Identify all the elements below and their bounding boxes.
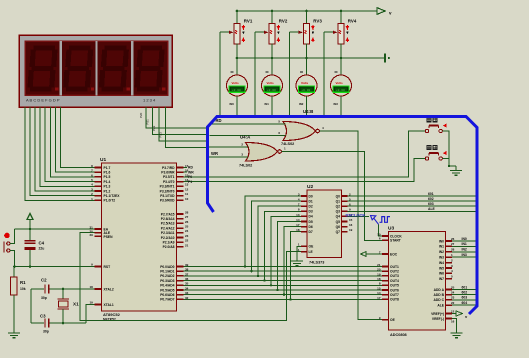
svg-text:D6: D6 [309,225,313,229]
U3 pin IN1 [446,245,453,247]
svg-text:602: 602 [428,197,434,201]
svg-text:13: 13 [296,213,300,217]
wire display digit 1 to bus [146,107,206,128]
U3 pin IN5 [446,267,453,269]
wire data tap D5 to U2 [278,222,302,291]
svg-text:20: 20 [377,268,381,272]
svg-text:18: 18 [89,285,93,289]
svg-text:OUT6: OUT6 [390,288,399,292]
U1 pin P0.3/AD3 [177,280,184,282]
svg-text:RV3: RV3 [313,19,322,24]
U3 pin VREF(+) [446,313,453,315]
svg-text:15: 15 [349,218,353,222]
wire P0.2 to ADC OUT [184,275,383,277]
wire clock to U3 CLOCK [379,224,382,236]
svg-text:VREF(-): VREF(-) [432,317,444,321]
wire voltmeter M4 to bus [340,96,342,115]
wire U4:A output to U3 START [282,152,383,241]
svg-text:12: 12 [185,187,189,191]
svg-text:Volts: Volts [232,81,239,85]
wire display segment pin DP to U1 P1 [60,107,94,168]
svg-text:+0.00: +0.00 [336,89,345,92]
push button DANBU [425,157,428,160]
wire P0.6 to ADC OUT [184,294,383,296]
U1 pin P3.1/TXD [177,195,184,197]
svg-text:17: 17 [296,223,300,227]
svg-text:VREF(+): VREF(+) [431,312,444,316]
wire display segment pin F to U1 P1 [50,107,94,177]
U3 pin OUT4 [382,280,389,282]
U3 pin IN7 [446,278,453,280]
U2 pin Q0 [342,195,348,197]
voltmeter M3 [306,58,308,75]
resistor R1 [13,267,15,278]
RV4 adjust markers [346,25,348,30]
svg-text:OUT1: OUT1 [390,265,399,269]
svg-text:603: 603 [462,296,468,300]
svg-text:A B C D E F G D P: A B C D E F G D P [26,97,60,102]
svg-text:19: 19 [349,228,353,232]
wire button2 right to ground [443,159,449,167]
junction RV1 rails [236,10,239,13]
svg-text:74LS02: 74LS02 [239,164,252,168]
wire display segment pin A to U1 P1 [25,107,95,200]
push button TIAOSHI [425,129,428,132]
U1 pin P0.1/AD1 [177,270,184,272]
svg-text:Q4: Q4 [336,215,341,219]
U3 pin OUT7 [382,294,389,296]
U2 pin Q6 [342,226,348,228]
wire R1 to ground [13,295,15,333]
svg-text:C3: C3 [40,314,46,319]
U2 pin D4 [301,215,307,217]
U2 pin Q7 [342,231,348,233]
wire ALE net 604 [452,304,477,306]
svg-text:16: 16 [349,223,353,227]
display digit 4 decimal point [162,87,165,90]
svg-text:D0: D0 [309,194,313,198]
svg-text:IN2: IN2 [439,250,444,254]
svg-text:D2: D2 [309,205,313,209]
voltmeter M1 [236,58,238,75]
svg-text:P0.0/AD0: P0.0/AD0 [160,265,174,269]
wire voltmeter M3 to bus [306,96,308,115]
U2 pin Q2 [342,205,348,207]
U2 pin Q4 [342,215,348,217]
svg-text:IN1: IN1 [439,245,444,249]
U2 pin D6 [301,226,307,228]
display digit 3 (ghost 8) [105,45,127,50]
button DANBU name [427,145,432,150]
power terminal +V (right arrow) [377,8,385,15]
RV2 adjust markers [277,25,279,30]
ground for buttons [455,166,457,171]
svg-text:OUT8: OUT8 [390,298,399,302]
U1 pin XTAL2 [95,288,102,290]
wire data tap D4 to U2 [271,216,301,285]
U2 pin D2 [301,205,307,207]
svg-text:Q2: Q2 [336,205,341,209]
display digit 1 decimal point [55,87,58,90]
wire ADD B net 602 [452,294,477,296]
svg-text:WR: WR [188,170,194,174]
potentiometer RV4 [340,11,342,24]
U3 pin OE [382,319,389,321]
wire VREF- to ground [452,319,457,333]
svg-text:10k: 10k [20,287,26,291]
U1 pin XTAL1 [95,304,102,306]
push button reset [5,233,10,238]
svg-text:23: 23 [185,234,189,238]
svg-text:11: 11 [185,192,189,196]
wire U2 Q3 net ALE [348,210,477,212]
display digit 2 (ghost 8) [69,45,91,50]
wire ADD A net 601 [452,289,477,291]
U1 pin P1.5 [95,176,102,178]
wire P0.7 to ADC OUT [184,298,383,300]
wire C2-C3 left join [30,289,32,323]
svg-text:601: 601 [428,192,434,196]
U1 pin P2.7/A15 [177,213,184,215]
wire mid rail to terminal [237,57,385,59]
U1 pin P2.6/A14 [177,218,184,220]
svg-text:IN0: IN0 [462,237,467,241]
svg-text:C2: C2 [41,278,47,283]
svg-text:XTAL1: XTAL1 [104,303,114,307]
svg-text:IN2: IN2 [462,248,467,252]
svg-text:P1.3: P1.3 [104,185,111,189]
svg-text:P0.5/AD5: P0.5/AD5 [160,288,174,292]
svg-text:P2.0/A8: P2.0/A8 [163,245,175,249]
svg-text:P1.1/T2EX: P1.1/T2EX [104,194,121,198]
svg-text:D1: D1 [309,199,313,203]
svg-text:OUT7: OUT7 [390,293,399,297]
svg-text:18: 18 [377,277,381,281]
svg-text:P3.7/RD: P3.7/RD [162,166,175,170]
svg-text:Q7: Q7 [336,230,341,234]
wire P0.3 to ADC OUT [184,280,383,282]
voltmeter M4 [340,58,342,75]
wire IN2 to bus [452,251,477,253]
wire voltmeter M2 to bus [271,96,273,115]
svg-text:23: 23 [451,296,455,300]
wire display segment pin C to U1 P1 [35,107,94,191]
U3 pin IN0 [446,240,453,242]
svg-text:+0.00: +0.00 [301,89,310,92]
wire to U4:B input 6 [210,135,286,137]
svg-text:22: 22 [185,239,189,243]
U1 pin P0.5/AD5 [177,289,184,291]
wire U2 Q0 net 601 [348,195,477,197]
U2 pin Q3 [342,210,348,212]
U3 pin IN3 [446,256,453,258]
wire WR to U4:A input 2 [207,146,249,148]
svg-text:P23: P23 [158,132,162,138]
svg-text:P3.2/INT0: P3.2/INT0 [160,189,175,193]
clock generator symbol [371,216,391,225]
svg-text:22: 22 [451,301,455,305]
svg-text:15: 15 [377,286,381,290]
svg-text:10: 10 [185,197,189,201]
wire P0.4 to ADC OUT [184,284,383,286]
svg-text:IN7: IN7 [439,277,444,281]
svg-text:28: 28 [185,210,189,214]
svg-text:EOC: EOC [390,252,398,256]
wire data tap D2 to U2 [258,206,301,276]
svg-text:Q0: Q0 [336,194,341,198]
svg-text:604: 604 [462,301,468,305]
svg-text:P3.5/T1: P3.5/T1 [163,175,175,179]
U2 pin OE [301,245,307,247]
nor gate U4:A body [246,143,278,162]
svg-text:OUT5: OUT5 [390,284,399,288]
U3 pin ADD A [446,289,453,291]
svg-text:+0.00: +0.00 [232,89,241,92]
svg-text:602: 602 [462,291,468,295]
U3 pin IN4 [446,262,453,264]
U1 pin P0.4/AD4 [177,284,184,286]
U1 pin P1.7 [95,167,102,169]
svg-text:21: 21 [185,243,189,247]
U2 pin Q5 [342,221,348,223]
svg-text:OE: OE [390,318,396,322]
button TIAOSHI name [427,117,432,122]
svg-text:+0.00: +0.00 [267,89,276,92]
U2 pin D0 [301,195,307,197]
svg-text:U4:A: U4:A [240,135,251,140]
U3 pin OUT1 [382,266,389,268]
U1 pin P1.3 [95,185,102,187]
wire XTAL1 riser [86,305,95,324]
wire data tap D1 to U2 [252,201,302,271]
svg-text:P3.0/RXD: P3.0/RXD [160,199,175,203]
svg-text:74LS02: 74LS02 [281,142,294,146]
svg-text:P2.1/A9: P2.1/A9 [163,241,175,245]
U3 pin IN6 [446,272,453,274]
svg-text:P0.6/AD6: P0.6/AD6 [160,293,174,297]
svg-text:ALE: ALE [428,207,436,211]
svg-text:12: 12 [451,309,455,313]
svg-text:Q6: Q6 [336,225,341,229]
svg-text:P20: P20 [139,112,143,118]
U1 pin ALE [95,232,102,234]
wire display segment pin E to U1 P1 [45,107,94,182]
wire display segment pin G to U1 P1 [55,107,94,172]
svg-text:601: 601 [462,285,468,289]
svg-text:P1.5: P1.5 [104,175,111,179]
wire ADD C net 603 [452,299,477,301]
U1 pin P3.6/WR [177,171,184,173]
svg-text:RV1: RV1 [244,19,253,24]
svg-text:R1: R1 [20,280,26,285]
wire button1 right to ground [443,131,456,166]
svg-text:P2.4/A12: P2.4/A12 [161,226,175,230]
svg-text:P2.5/A13: P2.5/A13 [161,222,175,226]
svg-text:P0: P0 [188,175,192,179]
junction RV3 rails [305,10,308,13]
svg-text:RST: RST [104,265,111,269]
svg-text:25: 25 [185,225,189,229]
wire display digit 4 to bus [166,107,206,148]
U1 pin P2.3/A11 [177,232,184,234]
wire U2 Q4 DSCLOCK [348,215,370,217]
junction RV2 rails [271,10,274,13]
wire display segment pin B to U1 P1 [30,107,94,196]
svg-text:27: 27 [185,215,189,219]
U1 pin P3.5/T1 [177,176,184,178]
svg-text:603: 603 [428,202,434,206]
svg-text:14: 14 [377,291,381,295]
svg-text:22u: 22u [39,247,45,251]
latch U2 body [307,190,342,258]
bar terminal on mid rail [384,54,386,63]
U1 pin P3.3/INT1 [177,185,184,187]
U3 pin OUT5 [382,284,389,286]
wire reset button top [10,229,15,244]
svg-text:D7: D7 [309,230,313,234]
svg-text:XTAL2: XTAL2 [104,287,114,291]
svg-text:IN3: IN3 [439,256,444,260]
RV3 adjust markers [312,25,314,30]
svg-text:P3.1/TXD: P3.1/TXD [160,194,175,198]
U1 pin P3.7/RD [177,167,184,169]
wire RV3 wiper drop to bus [289,32,291,115]
U2 pin Q1 [342,200,348,202]
capacitor C4 (electrolytic) [29,229,31,240]
U1 pin P1.2 [95,190,102,192]
U1 pin P1.4 [95,181,102,183]
ground for R1 [8,332,20,334]
display digit cell dividers [26,42,61,96]
svg-text:P2.7/A15: P2.7/A15 [161,212,175,216]
svg-text:IN5: IN5 [439,266,444,270]
svg-text:ALE: ALE [437,303,444,307]
U1 pin P0.6/AD6 [177,294,184,296]
wire data tap D3 to U2 [265,211,302,280]
svg-text:P0.4/AD4: P0.4/AD4 [160,284,174,288]
button DANBU actuator [443,151,447,155]
svg-text:P3.4/T0: P3.4/T0 [163,180,175,184]
svg-text:X1: X1 [73,302,79,307]
svg-text:PSEN: PSEN [104,235,114,239]
U1 pin P2.4/A12 [177,227,184,229]
svg-text:P1.0/T2: P1.0/T2 [104,199,116,203]
RV1 adjust markers [242,25,244,30]
svg-text:IN0: IN0 [439,239,444,243]
U1 pin P2.2/A10 [177,237,184,239]
wire U4:B output to U3 OE [320,131,383,320]
U1 pin P1.6 [95,171,102,173]
wire RV4 wiper drop to bus [323,32,325,115]
display digit 3 decimal point [127,87,130,90]
svg-text:P1.6: P1.6 [104,171,111,175]
wire IN0 to bus [452,240,477,242]
svg-text:DSCLOCK: DSCLOCK [346,212,366,217]
U1 net stub RD [184,167,188,169]
svg-text:P21: P21 [145,119,149,125]
U1 pin P3.0/RXD [177,199,184,201]
wire data tap D6 to U2 [284,227,301,295]
svg-text:74LS373: 74LS373 [309,261,324,265]
svg-text:Q3: Q3 [336,210,341,214]
4-digit 7-segment display DS1 frame [19,35,172,107]
svg-text:Volts: Volts [267,81,274,85]
wire RD to U4:B input 5 [210,123,286,125]
U3 pin OUT2 [382,270,389,272]
svg-text:P22: P22 [152,125,156,131]
svg-text:21: 21 [377,263,381,267]
nor gate U4:B body [283,122,316,141]
svg-text:P1.2: P1.2 [104,189,111,193]
U3 pin OUT8 [382,298,389,300]
U2 pin LE [301,251,307,253]
U1 net stub WR [184,171,188,173]
wire display digit 2 to bus [153,107,206,135]
svg-text:RD: RD [188,166,193,170]
svg-text:ADC0808: ADC0808 [390,333,407,337]
wire EA row [15,228,95,230]
voltmeter M2 [271,58,273,75]
display digit 4 (ghost 8) [140,45,162,50]
svg-text:ADD B: ADD B [434,293,445,297]
power terminal for EA (up arrow) [27,214,33,220]
svg-text:WR: WR [211,151,218,156]
svg-text:24: 24 [451,291,455,295]
svg-text:IN1: IN1 [462,242,467,246]
svg-text:U2: U2 [307,184,313,190]
wire EOC with terminal [366,253,382,255]
power terminal VREF+ [452,313,456,315]
svg-text:IN3: IN3 [462,253,467,257]
svg-text:26: 26 [451,237,455,241]
potentiometer RV1 [236,11,238,24]
svg-text:P3.6/WR: P3.6/WR [161,171,175,175]
svg-text:Q1: Q1 [336,199,341,203]
svg-text:26: 26 [185,220,189,224]
display digit 1 (ghost 8) [33,45,55,50]
U1 pin P1.1/T2EX [95,195,102,197]
wire U2 Q2 net 603 [348,205,477,207]
U3 pin START [382,239,389,241]
wire to U4:A input 3 [207,156,249,158]
svg-text:P1.4: P1.4 [104,180,111,184]
svg-text:P2.6/A14: P2.6/A14 [161,217,175,221]
svg-text:19: 19 [377,272,381,276]
svg-text:P2.2/A10: P2.2/A10 [161,236,175,240]
svg-text:P0.7/AD7: P0.7/AD7 [160,298,174,302]
U3 pin EOC [382,253,389,255]
U1 pin P0.0/AD0 [177,266,184,268]
svg-text:U4:B: U4:B [303,109,313,114]
button TIAOSHI actuator [443,124,447,128]
svg-text:24: 24 [185,229,189,233]
svg-text:IN1: IN1 [265,102,270,106]
wire display segment pin D to U1 P1 [40,107,94,186]
svg-text:14: 14 [296,218,300,222]
svg-text:27: 27 [451,242,455,246]
svg-text:P0.1/AD1: P0.1/AD1 [160,270,174,274]
svg-text:RV4: RV4 [348,19,357,24]
wire RV1 wiper drop to bus [219,32,221,115]
U3 pin OUT3 [382,275,389,277]
svg-text:U3: U3 [388,226,394,232]
svg-text:P1.7: P1.7 [104,166,111,170]
svg-text:RV2: RV2 [279,19,288,24]
svg-text:START: START [390,239,401,243]
U3 pin OUT6 [382,289,389,291]
svg-text:P1: P1 [188,180,192,184]
svg-text:ADD C: ADD C [434,298,445,302]
